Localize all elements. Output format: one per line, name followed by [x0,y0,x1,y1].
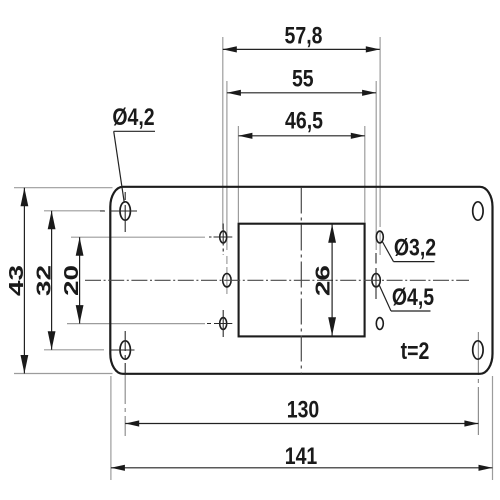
label t=2 [401,337,430,365]
small hole right top (3.2) [376,231,383,243]
corner hole top-right [473,202,483,220]
extension line 20 top [71,236,205,238]
extension line 46,5 left [237,126,239,223]
svg-text:130: 130 [287,396,320,424]
svg-text:141: 141 [285,442,318,470]
extension line 55 left [226,81,228,294]
horizontal centerline [85,279,469,281]
label Ø4,2 with leader [112,103,155,203]
vertical centerline [300,188,302,374]
dimension 26 [312,224,336,336]
svg-text:t=2: t=2 [401,337,430,365]
dimension 43 [6,188,29,374]
small hole right bottom (3.2) [376,318,383,330]
dimension 141 [111,442,493,471]
crosshair small hole left bottom [207,310,232,337]
label Ø4,5 with leader [379,283,434,311]
extension line 43 bottom [14,373,113,375]
small hole right middle (4.5) [372,274,380,287]
corner hole bottom-left [120,341,130,359]
extension line 46,5 right [364,126,366,223]
svg-text:20: 20 [61,265,83,296]
dimension 20 [61,237,84,323]
small hole left top (3.2) [220,231,227,243]
small hole left middle (4.5) [223,274,231,287]
dimension 46,5 [238,106,364,138]
svg-text:Ø4,2: Ø4,2 [112,103,154,131]
dimension 32 [33,211,56,350]
svg-text:55: 55 [292,65,314,93]
svg-text:26: 26 [312,265,334,296]
crosshair small hole left top [209,224,232,256]
extension dash-dot below bottom-left hole [124,374,126,436]
svg-text:57,8: 57,8 [285,21,323,49]
label Ø3,2 with leader [382,233,436,261]
extension line 55 right [375,81,377,250]
extension line 20 bottom [67,323,205,325]
extension line 57,8 right [379,37,381,255]
svg-text:Ø3,2: Ø3,2 [394,233,436,261]
svg-text:46,5: 46,5 [285,106,323,134]
extension line 57,8 left [222,37,224,229]
dimension 57,8 [223,21,380,52]
crosshair small hole right middle [375,253,377,299]
dimension 130 [125,396,478,427]
svg-text:43: 43 [6,265,28,296]
extension dash-dot through bottom-right hole [477,332,479,435]
extension line 43 top [14,187,113,189]
corner hole bottom-right [473,341,483,359]
plate outline [110,187,492,374]
corner hole top-left [120,202,130,220]
small hole left bottom (3.2) [220,318,227,330]
dimension 55 [227,65,376,96]
crosshair bottom-left corner hole [110,331,135,374]
extension line 141 left [110,376,112,480]
crosshair top-left corner hole [100,192,137,232]
svg-text:Ø4,5: Ø4,5 [392,283,434,311]
svg-text:32: 32 [33,265,55,296]
extension line 32 top [44,210,104,212]
center cutout rectangle [239,224,365,337]
extension line 141 right [492,376,494,480]
extension line 32 bottom [44,349,104,351]
